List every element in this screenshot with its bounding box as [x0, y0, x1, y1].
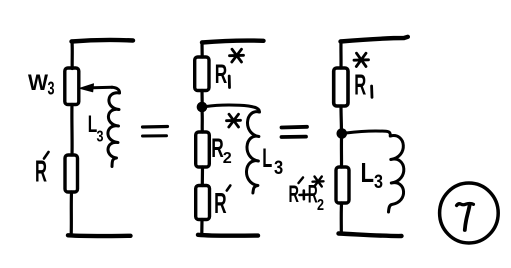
equals sign 2 — [282, 127, 308, 137]
wire: W3 to R' — [70, 105, 73, 156]
svg-text:3: 3 — [374, 172, 383, 193]
wire: circuit 2 top rail — [202, 41, 264, 43]
asterisk on R1 (circuit 3) — [354, 53, 369, 66]
asterisk on L3 branch (circuit 2) — [227, 114, 241, 127]
label L3 (circuit 1) — [88, 111, 104, 146]
digit 7 — [457, 203, 474, 230]
wire: circuit 1 left vertical top segment — [70, 41, 73, 69]
svg-text:3: 3 — [274, 158, 283, 179]
wire: node to R2 (circuit 2) — [200, 110, 204, 132]
wire: circuit 3 bottom rail — [339, 234, 402, 237]
label R'+R2* — [289, 181, 325, 215]
label W3 — [28, 70, 55, 99]
wire: R' to bottom rail (circuit 2) — [200, 220, 203, 235]
inductor L3 (circuit 3) — [389, 136, 404, 212]
wire: R1 to node (circuit 2) — [200, 91, 203, 104]
svg-text:3: 3 — [97, 129, 104, 146]
svg-text:2: 2 — [317, 197, 324, 214]
wire: top rail to R1 (circuit 3) — [339, 41, 342, 68]
label R1 (circuit 3) — [354, 69, 366, 101]
wire: combined resistor to bottom rail (circuit 3) — [340, 203, 343, 233]
subscript 1 of R1 (circuit 3) — [370, 86, 373, 97]
junction node (circuit 3) — [337, 128, 348, 139]
resistor R1 (circuit 3) — [334, 68, 348, 106]
resistor R1 (circuit 2) — [195, 57, 209, 91]
wire: R' to bottom rail (circuit 1) — [70, 192, 74, 234]
svg-text:2: 2 — [223, 150, 232, 167]
plus sign in label — [300, 191, 309, 200]
inductor L3 (circuit 2) — [246, 112, 259, 193]
svg-text:R: R — [215, 59, 228, 89]
wiper arrowhead — [80, 84, 94, 92]
resistor R' (circuit 1) — [65, 155, 78, 192]
wire: circuit 3 top rail — [341, 37, 408, 42]
figure number circle — [440, 183, 499, 243]
svg-text:R: R — [354, 69, 366, 101]
resistor R' (circuit 2) — [196, 186, 210, 220]
svg-text:3: 3 — [48, 79, 55, 99]
asterisk on R1 (circuit 2) — [230, 49, 244, 62]
label R' (circuit 1) — [35, 154, 47, 189]
label L3 (circuit 2) — [262, 143, 283, 179]
wire: circuit 2 bottom rail — [198, 233, 258, 238]
wire: R1 to node (circuit 3) — [339, 106, 343, 129]
label L3 (circuit 3) — [361, 157, 384, 193]
equals sign 1 — [143, 127, 168, 137]
subscript 1 of R1 (circuit 2) — [228, 76, 231, 88]
asterisk on R2 in label — [313, 177, 324, 187]
junction node (circuit 2) — [197, 102, 208, 113]
label R2 (circuit 2) — [211, 133, 232, 167]
label R' (circuit 2) — [214, 188, 227, 220]
potentiometer W3 — [65, 68, 79, 105]
wire: R2 to R' (circuit 2) — [201, 167, 204, 186]
wire: top rail to R1 (circuit 2) — [200, 42, 203, 57]
wire: wiper to inductor L3 — [112, 87, 120, 93]
label R1 (circuit 2) — [215, 59, 228, 89]
wire: circuit 1 top rail — [72, 40, 134, 42]
svg-text:R: R — [289, 181, 300, 208]
svg-text:R: R — [214, 188, 227, 220]
resistor R'+R2 (circuit 3) — [336, 167, 349, 203]
wire: node to inductor L3 (circuit 3) — [346, 131, 390, 136]
wire: circuit 1 bottom rail — [68, 233, 131, 238]
svg-text:W: W — [28, 70, 48, 95]
prime of R' in label — [299, 178, 304, 184]
svg-text:L: L — [262, 143, 272, 173]
inductor L3 (circuit 1) — [108, 93, 120, 167]
wiper arrow of W3 — [93, 86, 112, 90]
svg-text:L: L — [361, 157, 375, 188]
resistor R2 (circuit 2) — [196, 132, 210, 167]
prime of R' (circuit 1) — [44, 152, 49, 159]
wire: node to combined resistor (circuit 3) — [340, 138, 343, 167]
prime of R' (circuit 2) — [227, 186, 231, 191]
wire: node to inductor L3 (circuit 2) — [206, 105, 259, 112]
